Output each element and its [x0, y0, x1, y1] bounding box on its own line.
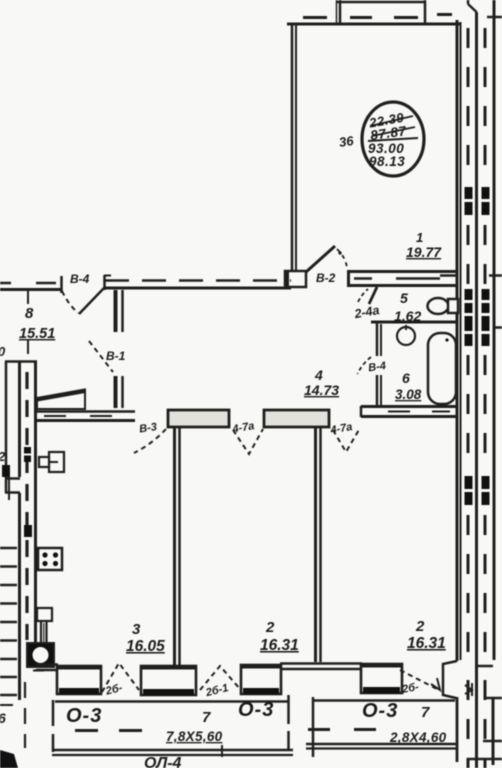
node: wall tie squares set C — [465, 476, 490, 505]
wire: window glazing dashes along top wall — [303, 16, 327, 19]
svg-text:В-4: В-4 — [368, 360, 387, 374]
svg-text:6: 6 — [0, 710, 6, 726]
wall: left wall niche jog — [5, 477, 20, 480]
door B-1 swing — [89, 341, 113, 372]
svg-text:3: 3 — [132, 621, 141, 638]
door 2b-1 swing (right room balcony door) — [400, 670, 437, 689]
svg-text:6: 6 — [402, 370, 410, 386]
svg-text:3.08: 3.08 — [395, 387, 422, 402]
wall: hall top wall left segment — [0, 288, 62, 291]
svg-text:16.31: 16.31 — [260, 637, 299, 654]
door 2b-1 swing (kitchen balcony door) — [102, 663, 139, 692]
door 2-4a leaf (wc door) — [369, 287, 377, 304]
stairs: treads — [0, 548, 17, 695]
wire: right wall inner line (room side) — [456, 20, 459, 661]
wire: bottom-left short line — [0, 704, 13, 706]
wire: cavity dashed centerline 1 — [467, 28, 470, 180]
svg-text:В-1: В-1 — [106, 349, 126, 363]
svg-text:16.31: 16.31 — [407, 635, 446, 652]
balcony right: interior dashes — [308, 728, 330, 731]
svg-text:О-3: О-3 — [66, 705, 102, 727]
fixture: WC toilet — [428, 298, 449, 314]
wire: cavity horizontal dashes at y275 — [440, 274, 456, 277]
wire: cavity dashed centerline 2 — [484, 28, 487, 180]
fixture: electric panel box — [49, 452, 64, 472]
window O-3 W2 — [141, 666, 196, 696]
wall: left wall top cap — [5, 360, 37, 363]
balcony right: top rail — [312, 699, 455, 702]
wire: right wall middle line — [475, 12, 478, 768]
wire: leader ticks for hall label — [27, 288, 29, 304]
svg-text:В-2: В-2 — [316, 271, 336, 285]
svg-text:ОЛ-4: ОЛ-4 — [144, 755, 182, 768]
node: area oval stamp — [362, 102, 424, 176]
node: pier at room1 SW corner — [285, 271, 306, 287]
wire: left wall centerline dashes — [25, 372, 28, 640]
wall: bar 1 (corridor/room3-room2 wall) — [168, 410, 229, 427]
svg-text:2-4а: 2-4а — [352, 303, 380, 321]
balcony left: front double line — [52, 749, 293, 752]
wall: bar 2 — [264, 410, 329, 427]
svg-text:2б-: 2б- — [400, 681, 420, 696]
fixture: faucet above sink — [37, 608, 52, 621]
node: vent squares pair on left wall — [2, 447, 32, 537]
wall: left outer line — [5, 361, 8, 493]
wall: divider room2mid | room2right — [314, 426, 317, 662]
door B-3 swing (room 3) — [134, 429, 166, 453]
wire: bottom-right horizontal stubs — [486, 697, 502, 700]
fixture: washbasin — [397, 327, 415, 345]
wall: corridor-bath south band — [361, 405, 458, 408]
svg-text:О-3: О-3 — [362, 700, 398, 722]
svg-text:19.77: 19.77 — [406, 244, 442, 260]
svg-text:1.62: 1.62 — [394, 308, 421, 324]
svg-text:В-3: В-3 — [139, 421, 158, 435]
door B-4 leaf (hall entry) — [79, 288, 104, 314]
svg-text:2б-1: 2б-1 — [204, 682, 230, 699]
svg-text:14.73: 14.73 — [304, 382, 339, 398]
wall: hall top wall main segment with dashes — [105, 279, 291, 282]
wall: stub below B-1 door — [114, 376, 118, 408]
wire: bay window left side — [339, 0, 342, 23]
wire: right edge stub at y327 — [494, 326, 502, 329]
wall: south wall segments (double line) — [36, 664, 362, 671]
door 4-7a swing (mid room) — [233, 429, 263, 454]
wall: bath left wall upper — [376, 322, 379, 356]
wall: room1/wc wall band — [347, 270, 458, 273]
svg-text:15.51: 15.51 — [19, 326, 55, 342]
wall: kitchen top wall — [37, 410, 135, 413]
svg-text:7: 7 — [421, 704, 430, 721]
node: K-mark junction at balcony level — [465, 685, 472, 694]
wall: stub above B-1 door — [114, 290, 118, 332]
svg-text:0: 0 — [0, 344, 6, 359]
wall: wc/bath separating wall — [371, 321, 458, 324]
svg-text:16.05: 16.05 — [126, 638, 165, 655]
fixture: kitchen sink — [27, 643, 54, 667]
node: wall tie squares set A left column — [465, 187, 490, 215]
svg-text:8: 8 — [25, 305, 34, 322]
wall: divider room3 | room2mid — [173, 426, 176, 667]
svg-text:4: 4 — [314, 367, 323, 383]
svg-text:В-4: В-4 — [70, 272, 90, 286]
svg-text:1: 1 — [416, 230, 423, 245]
balcony left: interior dashes — [75, 729, 98, 732]
wall: bath left wall lower — [376, 375, 379, 407]
door B-4: bracket at x104 — [103, 275, 106, 290]
balcony left: leader tick under dimension — [221, 745, 223, 757]
svg-text:2: 2 — [0, 449, 6, 464]
window O-3 W1 (kitchen) — [57, 666, 101, 695]
fixture: stove (4 burners) — [38, 548, 62, 570]
wire: room 1 top wall — [287, 23, 460, 26]
balcony right: front double line — [306, 743, 458, 746]
node: wall tie squares set B (near bathroom) — [465, 289, 490, 346]
wire: bay window top — [336, 1, 426, 4]
door 4-7a swing (right room) — [333, 428, 360, 452]
wire: cavity horizontal dash at y666 — [477, 665, 493, 668]
wire: right wall outer line — [493, 0, 496, 660]
window O-3 W3 — [241, 665, 281, 695]
balcony right: side edges — [312, 697, 315, 757]
svg-text:7: 7 — [202, 709, 211, 726]
svg-text:5: 5 — [400, 290, 408, 306]
door B-4 bath swing — [358, 357, 372, 374]
svg-text:2,8Х4,60: 2,8Х4,60 — [389, 730, 447, 745]
svg-text:4-7а: 4-7а — [231, 420, 256, 436]
svg-text:7,8Х5,60: 7,8Х5,60 — [166, 729, 223, 744]
wire: dashes below sink — [24, 682, 26, 748]
svg-text:О-3: О-3 — [238, 699, 274, 721]
balcony left: top rail — [55, 700, 288, 703]
svg-text:4-7а: 4-7а — [329, 421, 354, 437]
window O-3 W4 — [361, 664, 402, 694]
wall: right room SE zigzag corner — [443, 661, 457, 698]
door 2b-1 swing (mid room balcony door) — [200, 666, 240, 690]
balcony left: side edges — [52, 700, 55, 752]
svg-text:2: 2 — [265, 619, 275, 636]
fixture: bathtub — [428, 333, 456, 404]
svg-text:98.13: 98.13 — [369, 154, 405, 169]
svg-text:2: 2 — [415, 618, 425, 635]
wall: stair inner corner line — [8, 477, 10, 500]
wall: left wall inner lines — [18, 362, 21, 477]
wire: room 1 left wall (double line) — [291, 24, 294, 270]
wire: bay window right side — [424, 0, 427, 23]
node: bottom-left dark corner blob — [0, 750, 18, 768]
door B-2 leaf (room 1) — [306, 246, 335, 272]
svg-text:36: 36 — [338, 133, 355, 150]
fixture: hall counter (slanted box) — [37, 390, 85, 410]
